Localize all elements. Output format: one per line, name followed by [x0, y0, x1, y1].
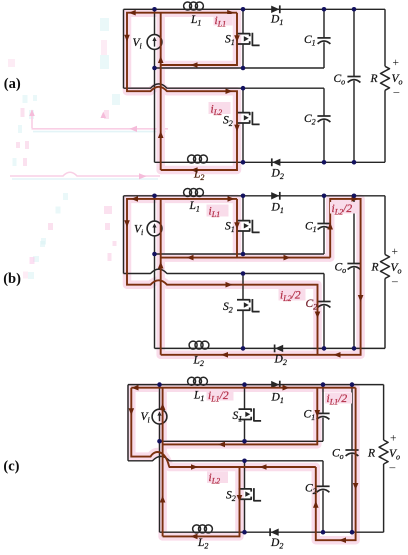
wire Vi stem top (a)	[154, 9, 156, 34]
highlight halo Co bottom C2 (c)	[316, 388, 356, 541]
wire left vertical (a)	[123, 9, 125, 88]
artifact flecks (b)	[33, 256, 39, 262]
current path Vi return (b)	[160, 199, 162, 355]
current path Co drop bottom-right C2 rise (c)	[316, 388, 356, 541]
node junction (b)	[241, 346, 246, 351]
node junction (c)	[242, 530, 247, 535]
arrow right top rail (b)	[228, 196, 235, 202]
node junction (a)	[322, 160, 327, 165]
arrow left top rail (b)	[131, 196, 138, 202]
arrow up Vi return lower (a)	[158, 131, 164, 138]
wire S2 drain/source (c)	[244, 461, 246, 532]
highlight halo left-S2 row (c)	[131, 388, 315, 467]
arrow left mid row (a)	[191, 62, 198, 68]
highlight halo C1 mid row (c)	[163, 388, 318, 445]
svg-text:(b): (b)	[3, 271, 21, 287]
wire mid row S1-source/C1 (a)	[155, 67, 325, 69]
wire C2 branch (a)	[323, 88, 325, 162]
arrow right top after D1 (c)	[283, 385, 290, 391]
arrow down Co side (b)	[358, 295, 364, 302]
node junction (b)	[241, 252, 246, 257]
label iL2 (a)	[209, 102, 231, 114]
inductor L2 (a)	[188, 155, 196, 163]
current path loop L1-S1 (a)	[161, 13, 237, 65]
node junction (b)	[352, 194, 357, 199]
wire Co branch (c)	[351, 385, 353, 533]
label iL1 (a)	[214, 14, 233, 26]
arrow left bottom left (c)	[191, 534, 198, 540]
current path C1 drop mid row (c)	[163, 388, 318, 445]
arrow left bottom right (c)	[339, 537, 346, 543]
arrow up Vi return upper (a)	[158, 56, 164, 63]
capacitor Co (c)	[345, 449, 358, 451]
arrow left mid row (c)	[218, 442, 225, 448]
arrow down left wire (b)	[124, 220, 130, 227]
node junction (b)	[241, 271, 246, 276]
wire S1 drain/source (c)	[244, 385, 246, 442]
wire Vi stem top (b)	[154, 196, 156, 221]
label iL1/2 top right (c)	[325, 393, 352, 404]
node junction (b)	[352, 346, 357, 351]
capacitor C2 (a)	[317, 115, 330, 117]
node junction (a)	[152, 66, 157, 71]
node junction (c)	[242, 382, 247, 387]
label iL2/2 top (b)	[330, 202, 357, 214]
node junction (c)	[242, 439, 247, 444]
diode D1 (a)	[271, 6, 279, 13]
highlight halo loop left-C2 (b)	[127, 199, 318, 355]
arrow down Co side (c)	[353, 483, 359, 490]
svg-text:–: –	[393, 86, 400, 98]
highlight halo mid row (b)	[161, 253, 331, 262]
node junction (b)	[241, 194, 246, 199]
mosfet S2 (c)	[239, 489, 252, 499]
diode D2 (c)	[271, 529, 279, 536]
inductor L2 (b)	[189, 341, 197, 349]
mosfet S1 (a)	[237, 34, 250, 44]
wire bottom rail (a)	[155, 161, 386, 163]
wire bottom rail (b)	[155, 347, 386, 349]
arrow right top rail (a)	[227, 10, 234, 16]
capacitor C1 (c)	[316, 412, 329, 414]
wire left vertical (c)	[127, 385, 129, 461]
node junction (a)	[352, 7, 357, 12]
svg-text:R: R	[370, 73, 378, 85]
wire S1 drain/source (b)	[242, 196, 244, 254]
svg-text:–: –	[391, 276, 398, 288]
wire left vertical (b)	[123, 196, 125, 274]
capacitor Co (a)	[347, 76, 360, 78]
svg-text:(c): (c)	[3, 459, 19, 475]
capacitor C1 (a)	[317, 37, 330, 39]
inductor L1 (b)	[184, 189, 192, 197]
arrow up Vi return lower (c)	[160, 496, 166, 503]
current path loop Vi-S2-L2 (a)	[127, 13, 237, 170]
arrow up Vi return (b)	[158, 262, 164, 269]
wire C2 branch (b)	[323, 274, 325, 349]
wire Vi stem bottom to rail (b)	[154, 236, 156, 349]
mosfet S2 (b)	[237, 300, 250, 310]
node junction (c)	[350, 530, 355, 535]
current path left to S2 row (c)	[131, 388, 315, 467]
inductor L2 (c)	[193, 525, 201, 533]
resistor R (c)	[379, 440, 388, 464]
diode D1 (b)	[271, 192, 279, 199]
svg-text:(a): (a)	[4, 76, 21, 92]
wire R branch (b)	[384, 196, 386, 349]
highlight halo loop S1 (a)	[161, 13, 237, 65]
capacitor Co (b)	[347, 263, 360, 265]
node junction (a)	[152, 7, 157, 12]
node junction (a)	[241, 86, 246, 91]
label iL2/2 mid (b)	[279, 289, 306, 301]
node junction (c)	[157, 439, 162, 444]
wire mid row S2-drain/C2 with hop (a)	[124, 84, 325, 88]
mosfet S1 (c)	[239, 409, 252, 419]
voltage source Vi (a)	[147, 35, 162, 50]
svg-text:–: –	[389, 462, 396, 474]
resistor R (b)	[381, 255, 390, 279]
arrow down S2 (a)	[234, 125, 240, 132]
inductor L1 (c)	[188, 377, 196, 385]
arrow right S2 row (b)	[226, 282, 233, 288]
arrow left top rail (c)	[132, 385, 139, 391]
wire S2 drain/source (a)	[242, 88, 244, 162]
arrow down C2 (b)	[315, 312, 321, 319]
wire mid row S1-source/C1 (b)	[155, 253, 325, 255]
diode D1 (c)	[271, 381, 279, 388]
wire R branch (c)	[383, 385, 385, 533]
wire Vi stem bottom to rail (c)	[159, 424, 161, 532]
wire top rail (b)	[124, 195, 386, 197]
wire mid row S2-drain/C2 with hop (c)	[128, 456, 323, 460]
voltage source Vi (c)	[152, 409, 167, 424]
arrow left bottom near L2 (b)	[221, 352, 228, 358]
label iL1/2 (c)	[207, 390, 234, 401]
arrow left top rail (a)	[129, 10, 136, 16]
current path top row (c)	[131, 387, 355, 389]
mosfet S2 (a)	[237, 113, 250, 123]
arrow down S1 (b)	[234, 222, 240, 229]
wire C1 branch (c)	[322, 385, 324, 442]
wire Vi stem top (c)	[159, 385, 161, 410]
current path Vi return (c)	[162, 388, 164, 537]
wire C1 branch (a)	[323, 9, 325, 68]
node junction (b)	[322, 194, 327, 199]
wire mid row S1-source/C1 (c)	[160, 440, 324, 442]
current path C1 rise Co drop bottom (b)	[161, 199, 361, 355]
svg-text:+: +	[392, 246, 399, 258]
arrow right S2 row (a)	[226, 88, 233, 94]
arrow up C1 (b)	[327, 223, 333, 230]
node junction (c)	[157, 382, 162, 387]
label iL1 (b)	[207, 205, 229, 217]
wire C2 branch (c)	[322, 461, 324, 532]
current path left loop via C2 (b)	[127, 199, 318, 355]
node junction (c)	[350, 382, 355, 387]
label iL2 (c)	[207, 472, 228, 484]
diode D2 (b)	[275, 345, 283, 352]
capacitor C2 (b)	[317, 301, 330, 303]
arrow right top right (b)	[352, 196, 359, 202]
highlight halo C1-Co loop (b)	[161, 199, 361, 355]
highlight halo Vi return (c)	[158, 388, 167, 537]
node junction (a)	[352, 160, 357, 165]
node junction (b)	[152, 252, 157, 257]
arrow left mid row (b)	[187, 255, 194, 261]
diode D2 (a)	[272, 159, 280, 166]
arrow left S2 row (c)	[260, 464, 267, 470]
resistor R (a)	[381, 66, 390, 90]
node junction (a)	[241, 7, 246, 12]
wire Co branch (a)	[353, 9, 355, 162]
artifact ghost line mid (a)	[32, 128, 169, 130]
arrow left bottom right (b)	[334, 352, 341, 358]
arrow up C2 side (c)	[313, 501, 319, 508]
current path Vi return (a)	[160, 13, 162, 170]
highlight halo S1 drop (b)	[233, 199, 242, 258]
svg-text:+: +	[393, 57, 400, 69]
wire Co branch (b)	[353, 196, 355, 349]
highlight halo top row (c)	[131, 383, 355, 392]
node junction (b)	[322, 346, 327, 351]
highlight halo loop S2 (a)	[127, 13, 237, 170]
inductor L1 (a)	[184, 2, 192, 10]
arrow right S2 row (c)	[191, 464, 198, 470]
node junction (c)	[321, 382, 326, 387]
highlight halo S2 drop bottom (c)	[163, 467, 240, 536]
capacitor C1 (b)	[317, 223, 330, 225]
voltage source Vi (b)	[147, 221, 162, 236]
highlight halo Vi return (b)	[156, 199, 165, 355]
arrow up Vi return top (c)	[160, 403, 166, 410]
wire bottom rail (c)	[160, 531, 384, 533]
highlight halo Vi return (a)	[156, 13, 165, 170]
node junction (a)	[322, 7, 327, 12]
current path mid row (b)	[161, 257, 331, 259]
wire R branch (a)	[384, 9, 386, 162]
arrow down S2 (c)	[237, 495, 243, 502]
arrow down S1 (a)	[234, 35, 240, 42]
wire top rail (c)	[128, 384, 384, 386]
current path S1 drop (b)	[236, 199, 238, 258]
arrow down left wire (c)	[129, 408, 135, 415]
svg-text:R: R	[371, 262, 379, 274]
capacitor C2 (c)	[316, 485, 329, 487]
current path S2 drop bottom-left (c)	[163, 467, 240, 536]
node junction (b)	[152, 194, 157, 199]
wire S2 drain/source (b)	[242, 274, 244, 349]
svg-text:R: R	[367, 448, 375, 460]
node junction (a)	[241, 160, 246, 165]
arrow right mid row (b)	[284, 255, 291, 261]
node junction (c)	[242, 459, 247, 464]
arrow down left wire (a)	[124, 35, 130, 42]
wire S1 drain/source (a)	[242, 9, 244, 68]
artifact flecks (a)	[100, 18, 109, 31]
wire Vi stem bottom to rail (a)	[154, 49, 156, 162]
mosfet S1 (b)	[237, 221, 250, 231]
arrow down C1 side (c)	[315, 410, 321, 417]
wire mid row S2-drain/C2 with hop (b)	[124, 269, 325, 273]
artifact ghost line bottom (a)	[10, 172, 160, 176]
wire C1 branch (b)	[323, 196, 325, 254]
node junction (a)	[241, 66, 246, 71]
wire top rail (a)	[124, 8, 386, 10]
svg-text:+: +	[390, 433, 397, 445]
node junction (c)	[321, 530, 326, 535]
arrow left bottom (a)	[191, 167, 198, 173]
